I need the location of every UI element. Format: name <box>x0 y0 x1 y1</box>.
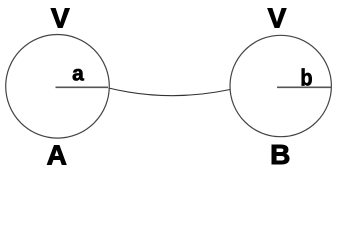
svg-text:A: A <box>47 139 67 170</box>
svg-text:b: b <box>300 64 312 90</box>
wire a (radius line in left circle) <box>56 86 109 88</box>
svg-text:a: a <box>72 63 84 86</box>
svg-text:V: V <box>51 2 70 33</box>
svg-text:B: B <box>270 139 290 170</box>
node A circle <box>6 35 110 139</box>
svg-text:V: V <box>268 2 287 33</box>
wire b (radius line in right circle) <box>277 86 332 88</box>
wire connecting node A to node B <box>109 88 231 96</box>
node B circle <box>230 35 331 136</box>
